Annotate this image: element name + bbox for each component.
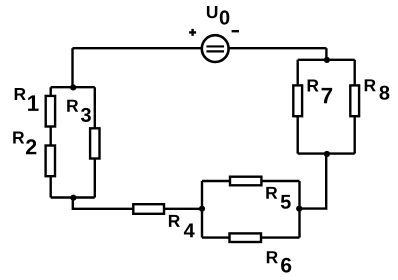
wire node B to R7R8 bottom bbox=[300, 154, 327, 209]
resistor R8 bbox=[350, 85, 359, 116]
node bottom of left block bbox=[70, 195, 76, 201]
node top of R7R8 bbox=[324, 57, 330, 63]
wire R7R8 top rail bbox=[298, 59, 355, 61]
label R2 bbox=[13, 132, 36, 155]
wire R7R8 bottom rail bbox=[298, 152, 355, 154]
wire R5R6 left vertical bbox=[201, 181, 203, 238]
label R7 bbox=[308, 80, 333, 104]
wire left block bottom rail bbox=[51, 196, 95, 198]
wire R5R6 bottom rail bbox=[202, 236, 300, 238]
wire right drop bbox=[325, 48, 327, 60]
wire R5R6 right vertical bbox=[298, 181, 300, 238]
wire R8 branch bbox=[354, 60, 356, 154]
wire top-left horizontal bbox=[73, 47, 204, 49]
plus sign bbox=[189, 29, 196, 36]
resistor R6 bbox=[230, 233, 262, 242]
label R5 bbox=[266, 187, 290, 209]
label U0 bbox=[207, 6, 229, 25]
wire right branch R3 bbox=[94, 87, 96, 197]
voltage source U0 circle bbox=[202, 35, 229, 62]
wire top-right horizontal bbox=[228, 47, 326, 49]
resistor R5 bbox=[230, 177, 261, 186]
wire left block top rail bbox=[51, 86, 95, 88]
wire R5R6 top rail bbox=[202, 180, 300, 182]
label R1 bbox=[15, 88, 39, 111]
wire left branch R1 R2 bbox=[50, 87, 52, 197]
label R6 bbox=[267, 251, 291, 272]
wire left drop bbox=[71, 48, 73, 87]
node top of left block bbox=[70, 84, 76, 90]
label R8 bbox=[365, 79, 390, 99]
node A left of R5R6 bbox=[199, 206, 205, 212]
minus sign bbox=[232, 30, 239, 32]
label R4 bbox=[169, 215, 195, 237]
voltage source bars bbox=[206, 46, 224, 51]
wire bottom run to R4 bbox=[73, 198, 202, 209]
node bottom of R7R8 bbox=[324, 151, 330, 157]
label R3 bbox=[67, 100, 91, 122]
resistor R2 bbox=[46, 146, 55, 177]
resistor R4 bbox=[133, 204, 164, 214]
resistor R3 bbox=[90, 128, 99, 158]
wire R7 branch bbox=[297, 60, 299, 154]
resistor R1 bbox=[46, 96, 55, 127]
resistor R7 bbox=[293, 85, 302, 116]
node B right of R5R6 bbox=[296, 206, 302, 212]
